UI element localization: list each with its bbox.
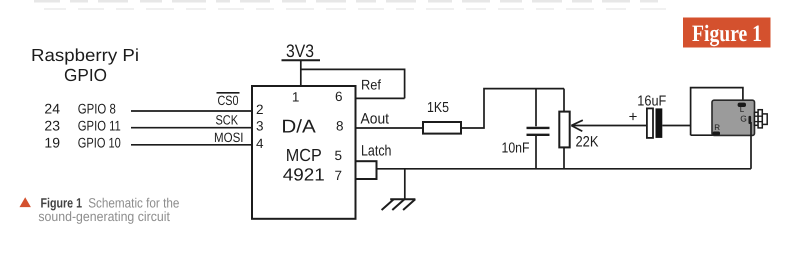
svg-text:4921: 4921 [283, 165, 325, 185]
cropped text remnants at top [34, 0, 658, 3]
svg-text:1K5: 1K5 [427, 100, 449, 116]
svg-text:GPIO: GPIO [64, 65, 107, 85]
wire to jack R pin [691, 134, 714, 136]
svg-text:+: + [629, 109, 638, 126]
svg-text:10nF: 10nF [502, 141, 530, 157]
jack pin R [713, 132, 720, 136]
wire 3V3 rail right [301, 69, 405, 98]
svg-text:SCK: SCK [216, 113, 239, 128]
RV1 wiper arrow [571, 120, 647, 131]
wire GPIO10 to pin4 [131, 144, 252, 146]
svg-text:16uF: 16uF [637, 93, 666, 109]
wire 3V3 stem to chip pin1 [300, 60, 302, 86]
svg-text:Latch: Latch [361, 143, 392, 160]
resistor R1 1K5 [423, 122, 461, 134]
svg-text:MOSI: MOSI [214, 130, 244, 145]
svg-text:CS0: CS0 [218, 93, 239, 108]
Raspberry Pi GPIO title [31, 45, 139, 85]
latch pins box [356, 161, 377, 179]
capacitor C1 10nF plates [527, 128, 550, 135]
svg-text:GPIO 11: GPIO 11 [78, 117, 121, 133]
potentiometer RV1 22K body [559, 112, 569, 148]
svg-text:GPIO 10: GPIO 10 [78, 134, 121, 150]
ground symbol [382, 199, 416, 210]
svg-text:Aout: Aout [361, 110, 390, 127]
caption marker triangle [20, 197, 31, 207]
wire C2 to jack [662, 125, 690, 127]
DAC U1 MCP4921 body [252, 86, 356, 219]
svg-text:Raspberry Pi: Raspberry Pi [31, 45, 139, 65]
pin 23 GPIO 11 label [44, 117, 121, 133]
svg-text:3V3: 3V3 [286, 41, 314, 61]
jack pin L [738, 103, 746, 107]
svg-text:1: 1 [292, 89, 300, 104]
svg-text:G: G [740, 114, 747, 124]
svg-text:8: 8 [336, 119, 344, 134]
capacitor C2 16uF right plate [656, 108, 663, 137]
ground rail wire [377, 168, 751, 170]
svg-text:R: R [714, 123, 720, 132]
jack barrel [755, 110, 768, 128]
wire GPIO11 to pin3 [131, 127, 252, 129]
svg-text:MCP: MCP [286, 145, 322, 165]
svg-text:5: 5 [334, 148, 342, 163]
Figure 1 badge [683, 18, 771, 48]
audio jack J1 body [712, 100, 755, 135]
svg-text:7: 7 [334, 168, 342, 183]
svg-text:GPIO 8: GPIO 8 [78, 101, 116, 117]
svg-text:24: 24 [44, 101, 60, 117]
wire GPIO8 to pin2 [131, 110, 252, 112]
ground stem [404, 169, 406, 199]
wire jack left loop [691, 88, 743, 136]
net label CS0 (overline) [217, 93, 240, 108]
svg-text:D/A: D/A [281, 116, 316, 137]
wire C1 bottom to ground rail [535, 136, 537, 169]
svg-text:22K: 22K [576, 133, 599, 150]
svg-text:sound-generating circuit: sound-generating circuit [38, 209, 170, 224]
wire pin8 Aout to R1 [356, 127, 424, 129]
svg-text:2: 2 [256, 102, 264, 117]
wire R1 to node A [461, 89, 564, 128]
pin 24 GPIO 8 label [44, 101, 116, 117]
svg-text:3: 3 [256, 119, 264, 134]
svg-text:23: 23 [44, 117, 60, 133]
wire node A to C1 top [535, 89, 537, 127]
wire pin6 Ref [356, 97, 405, 99]
svg-text:6: 6 [335, 89, 343, 104]
svg-text:4: 4 [256, 136, 264, 151]
wire jack G to ground rail [750, 122, 752, 169]
svg-text:19: 19 [44, 134, 60, 150]
svg-text:Figure 1: Figure 1 [692, 21, 762, 47]
wire rail to RV1 top [563, 89, 565, 112]
capacitor C2 16uF left plate [647, 108, 653, 137]
jack pin G [749, 116, 752, 124]
svg-text:Ref: Ref [361, 77, 381, 93]
caption text [38, 195, 179, 224]
wire RV1 bottom to ground rail [563, 147, 565, 168]
3V3 supply bar [282, 59, 321, 61]
pin 19 GPIO 10 label [44, 134, 121, 150]
